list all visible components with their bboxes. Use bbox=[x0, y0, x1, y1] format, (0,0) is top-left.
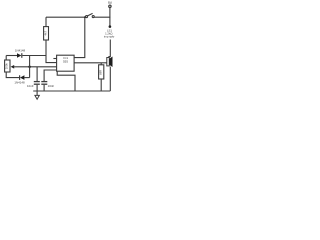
svg-text:10nF: 10nF bbox=[27, 84, 34, 88]
wire speaker bottom bbox=[109, 67, 111, 91]
wire diode D2 right bbox=[24, 77, 29, 79]
resistor R2 bbox=[99, 65, 104, 79]
wire C2 top from pin bbox=[44, 70, 57, 81]
wire diode D1 right bbox=[22, 55, 46, 57]
wire diode D1 left bbox=[6, 55, 17, 57]
label speaker 3 lines bbox=[104, 28, 115, 38]
wire speaker top bbox=[108, 40, 110, 57]
wire into pot top bbox=[5, 56, 7, 61]
wire down to R1 bbox=[45, 17, 47, 26]
wire top rail left bbox=[46, 16, 86, 18]
wire ground pin path bbox=[57, 71, 75, 91]
wire R1 bottom to pin bbox=[46, 40, 57, 63]
wiper arrowhead bbox=[11, 65, 15, 69]
wire battery to rail bbox=[109, 8, 111, 18]
battery terminal B1 bbox=[109, 5, 111, 7]
label D1 1N4148 bbox=[15, 49, 26, 53]
label C1 10nF bbox=[27, 84, 34, 88]
pin stub pin5 bbox=[53, 58, 56, 60]
capacitor C2 bbox=[41, 82, 47, 85]
switch S1 bbox=[86, 13, 95, 17]
svg-text:555: 555 bbox=[63, 59, 68, 63]
wire output pin3 bbox=[74, 62, 107, 64]
wire Vcc pin to switch bbox=[74, 17, 85, 57]
svg-text:1N4148: 1N4148 bbox=[15, 49, 26, 53]
wire R2 bottom bbox=[100, 79, 102, 91]
wire junction down to speaker node bbox=[109, 17, 111, 25]
wire C2 bottom bbox=[43, 85, 45, 91]
svg-text:9V: 9V bbox=[108, 1, 113, 5]
battery label 9V bbox=[108, 1, 113, 5]
diode D1 bbox=[17, 53, 22, 58]
node dot speaker top bbox=[109, 25, 112, 28]
svg-text:1N4148: 1N4148 bbox=[14, 81, 25, 85]
resistor R1 bbox=[43, 27, 48, 40]
wire vertical D1 junction down bbox=[29, 56, 31, 78]
label C2 10nF bbox=[48, 84, 55, 88]
IC U1 555 box bbox=[57, 55, 75, 71]
capacitor C1 bbox=[34, 82, 40, 85]
node dot wiper junction bbox=[28, 66, 31, 69]
wire C1 bottom bbox=[36, 85, 38, 91]
svg-text:100k: 100k bbox=[5, 63, 9, 70]
ground symbol bbox=[35, 91, 39, 99]
label D2 1N4148 bbox=[14, 81, 25, 85]
svg-text:68R: 68R bbox=[99, 70, 103, 75]
wire bottom rail bbox=[33, 90, 110, 92]
speaker LS1 bbox=[107, 57, 113, 68]
wire C1 top bbox=[36, 67, 38, 81]
diode D2 bbox=[20, 75, 25, 80]
potentiometer VR1 bbox=[5, 60, 11, 72]
node junction switch-left bbox=[84, 16, 86, 18]
svg-text:4k7: 4k7 bbox=[43, 31, 47, 36]
svg-text:10nF: 10nF bbox=[48, 84, 55, 88]
wire rail right segment bbox=[94, 16, 111, 18]
wire wiper to junction bbox=[13, 66, 56, 68]
svg-text:imp spkr: imp spkr bbox=[104, 34, 115, 38]
wire pot bottom bbox=[6, 72, 19, 78]
wire R2 top bbox=[100, 63, 102, 65]
